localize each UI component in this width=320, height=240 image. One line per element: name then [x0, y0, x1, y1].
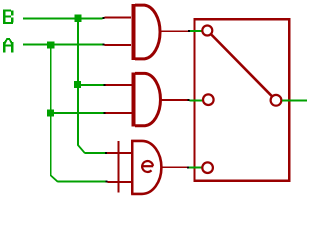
switch contact 2 — [203, 94, 214, 105]
switch wiper from contact 1 to common — [211, 35, 272, 97]
switch box SW1 — [195, 19, 290, 180]
junction on wire B — [75, 15, 82, 22]
node B label — [3, 10, 14, 25]
switch common contact — [271, 95, 282, 106]
wire gate2 output stub — [162, 99, 188, 101]
AND gate G2 — [131, 72, 160, 126]
wire gate2 input 2 green — [54, 112, 103, 114]
wire gate3 input 1 stub — [107, 152, 131, 154]
wire bend B vertical to gate3 — [78, 145, 85, 153]
wire gate3 output green into box — [189, 167, 202, 169]
junction on B vertical — [74, 81, 81, 88]
switch contact 3 — [202, 162, 213, 173]
gate G3 body — [131, 140, 161, 194]
pin dot gate1 input 2 — [102, 44, 104, 46]
wire gate3 output stub — [161, 166, 187, 168]
pin dot gate1 output — [188, 30, 190, 32]
wire gate3 input 2 stub — [108, 181, 132, 183]
wire gate2 output green into box — [190, 99, 202, 101]
junction on wire A — [47, 42, 54, 49]
wire gate3 input 1 green — [85, 152, 106, 154]
switch contact 1 — [202, 26, 212, 36]
wire B horizontal — [23, 17, 102, 19]
gate G3 back line — [117, 141, 119, 193]
wire gate1 input 2 stub — [104, 44, 131, 46]
pin dot gate2 input 1 — [104, 84, 106, 86]
wire gate3 input 2 green — [58, 181, 106, 183]
pin dot gate2 input 2 — [104, 112, 106, 114]
wire vertical from A junction — [50, 45, 52, 176]
wire gate1 input 1 stub — [104, 17, 131, 19]
wire gate2 input 2 stub — [106, 112, 132, 114]
node A label — [3, 38, 13, 53]
pin dot gate3 input 2 — [106, 181, 108, 183]
wire gate1 output green into box — [190, 30, 202, 32]
pin dot gate3 input 1 — [105, 152, 107, 154]
gate G3 label e — [142, 161, 153, 172]
wire vertical from B junction — [77, 18, 79, 145]
wire output from common contact — [282, 100, 307, 102]
AND gate G1 — [131, 4, 160, 60]
wire A horizontal — [23, 44, 102, 46]
pin dot gate3 output — [187, 166, 189, 168]
wire bend A vertical to gate3 — [51, 176, 58, 182]
pin dot gate2 output — [188, 99, 190, 101]
junction on A vertical — [47, 110, 54, 117]
pin dot gate1 input 1 — [102, 17, 104, 19]
wire gate2 input 1 green — [81, 84, 104, 86]
wire gate1 output stub — [162, 30, 188, 32]
wire gate2 input 1 stub — [106, 84, 132, 86]
